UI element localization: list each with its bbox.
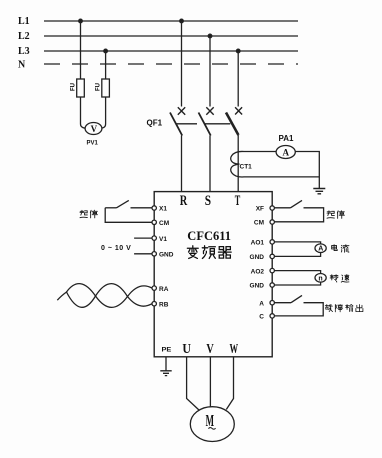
wire V1 stub [134,237,152,239]
pin RA [152,286,156,290]
svg-text:CM: CM [159,220,169,227]
current meter (A) [315,244,326,253]
twisted pair wire A to RA [67,284,153,308]
wire FU1 to voltmeter [81,97,86,128]
svg-text:V: V [206,342,213,357]
svg-text:AO1: AO1 [251,240,265,247]
node label L2 [18,31,30,42]
terminal label T [235,193,241,209]
motor M [190,407,234,442]
svg-text:FU: FU [96,83,102,91]
pin CM (left) [152,220,156,224]
node label L3 [18,46,30,57]
fuse FU1 [77,79,85,97]
junction on L1 at fuse branch [79,19,83,23]
voltmeter PV1 [85,123,102,135]
wire L3 to fuse FU2 [105,51,107,79]
pin GND (left) [152,252,156,256]
svg-text:FU: FU [71,83,77,91]
svg-text:PE: PE [162,346,173,353]
svg-text:V1: V1 [159,236,167,243]
label CFC611 [187,228,231,243]
breaker pole S: linkage tick [205,123,231,125]
svg-text:V: V [91,124,98,134]
svg-text:W: W [230,342,239,357]
terminal label R [180,193,188,209]
breaker pole S: wire from L2 [209,36,211,107]
breaker pole S: blade [199,113,211,136]
breaker pole T: blade [226,113,238,136]
node label L1 [18,16,30,27]
ground (CT secondary) [313,189,325,194]
ground PE [160,371,171,376]
svg-text:CT1: CT1 [240,164,253,171]
svg-text:A: A [283,147,290,157]
svg-text:n: n [318,275,322,282]
svg-text:PV1: PV1 [87,141,99,147]
wire pole T to terminal T [237,135,239,192]
label 转速 (speed) [330,275,349,283]
label 变频器 (inverter) [187,246,231,259]
pin GND (right 1) [270,254,274,258]
label QF1 [147,118,163,127]
pin V1 [152,236,156,240]
relay contact blade [291,295,302,302]
svg-text:XF: XF [256,206,264,213]
current transformer CT1 [231,151,320,177]
speed meter (n) [315,274,326,283]
wire AO2 to speed meter [274,271,320,274]
junction on L1 at breaker pole R [180,19,184,23]
svg-text:GND: GND [250,283,265,290]
svg-text:CM: CM [254,220,264,227]
label 故障输出 (fault output) [325,304,363,311]
fuse FU2 [102,79,110,97]
wire X1 switch right segment [131,207,153,209]
wire A relay left segment [274,302,291,304]
wire W to motor [226,357,233,410]
terminal label W [230,342,239,357]
wire ammeter to ground [298,152,319,189]
label FU (left fuse) [71,83,77,91]
svg-text:L3: L3 [18,46,30,57]
pin C [270,314,274,318]
svg-text:PA1: PA1 [279,134,295,143]
pin GND (right 2) [270,283,274,287]
switch XF blade [291,200,303,207]
terminal label V [206,342,213,357]
svg-text:S: S [205,193,211,209]
label CT1 [240,164,253,171]
inverter box U1 [154,192,272,357]
label 电流 (current) [332,245,349,253]
wire XF loop to CM [274,208,323,222]
svg-text:N: N [18,60,26,71]
wire U to motor [187,357,200,411]
breaker pole R: linkage tick [176,123,197,125]
ammeter PA1 [276,146,295,159]
pin RB [152,302,156,306]
breaker pole T: wire from L3 [237,51,239,107]
pin AO1 [270,240,274,244]
label 起停 (left) [80,210,97,218]
svg-text:0 ~ 10 V: 0 ~ 10 V [101,245,131,252]
wire X1 loop to CM [105,208,152,223]
label FU (right fuse) [96,83,102,91]
wire GND stub [134,253,152,255]
pin A [270,301,274,305]
svg-text:U: U [182,342,191,357]
junction on L3 at fuse branch [104,49,108,53]
svg-text:RA: RA [159,286,169,293]
wire L2 bus [44,35,298,37]
wire relay loop to C [274,303,323,316]
svg-text:GND: GND [250,254,265,261]
wire N bus (dashed) [44,63,298,65]
svg-text:GND: GND [159,252,174,259]
wire pole R to terminal R [181,136,183,192]
wire X1 switch left segment [105,207,116,209]
wire current meter to GND [274,253,320,257]
breaker pole R: blade [170,113,182,136]
svg-text:R: R [180,193,188,209]
wire pole S to terminal S [209,136,211,192]
twisted pair wire B to RB [57,284,152,308]
svg-text:AO2: AO2 [251,268,265,275]
breaker pole R: wire from L1 [181,21,183,107]
breaker pole R: cross mark [178,107,185,114]
node label N [18,60,26,71]
svg-text:L1: L1 [18,16,30,27]
wire PE to ground [165,357,167,371]
terminal label U [182,342,191,357]
junction on L3 at breaker pole T [236,49,240,53]
breaker pole S: cross mark [206,107,213,114]
wire L3 bus [44,50,298,52]
terminal label S [205,193,211,209]
svg-text:C: C [259,314,264,321]
svg-text:CFC611: CFC611 [187,228,231,243]
wire V to motor [209,357,211,407]
svg-text:RB: RB [159,301,169,308]
wire L1 to fuse FU1 [80,21,82,79]
wire L1 bus [44,20,298,22]
wire AO1 to current meter [274,242,320,244]
svg-text:T: T [235,193,241,209]
svg-text:A: A [318,246,323,253]
svg-text:X1: X1 [159,206,167,213]
wire FU2 to voltmeter [102,97,106,128]
pin X1 [152,206,156,210]
wire speed meter to GND [274,282,320,285]
pin AO2 [270,268,274,272]
pin XF [270,206,274,210]
junction on L2 at breaker pole S [208,34,212,38]
svg-text:QF1: QF1 [147,118,163,127]
switch X1 blade [117,200,129,207]
label 0~10V [101,245,131,252]
label 起停 (right) [327,211,344,219]
wire XF switch left segment [274,207,290,209]
breaker pole T: cross mark [235,107,242,114]
svg-text:A: A [259,300,264,307]
svg-text:L2: L2 [18,31,30,42]
terminal label PE [162,346,173,353]
pin CM (right) [270,220,274,224]
